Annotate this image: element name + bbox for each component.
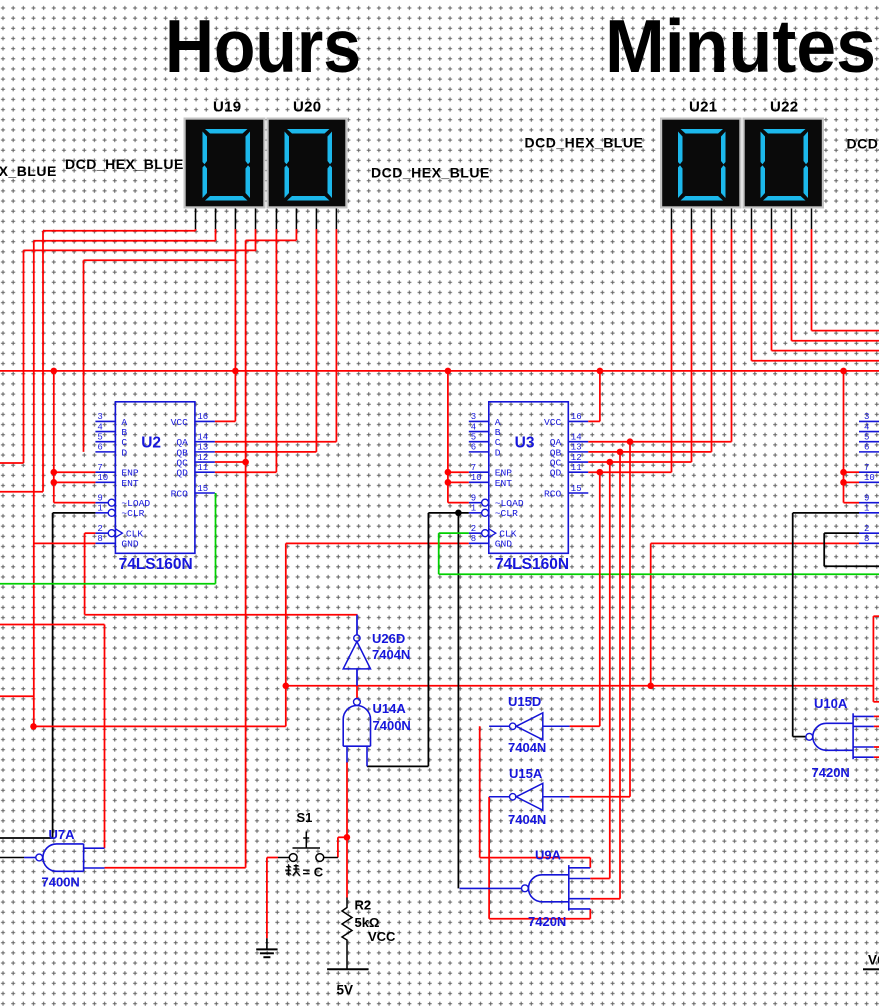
wire U2 VCC wire <box>215 420 236 422</box>
wire exit left (net C) <box>0 462 24 464</box>
wire U3 VCC wire <box>588 420 600 422</box>
junction U3 QD tap <box>597 469 604 476</box>
wire U3 GND return <box>34 725 286 727</box>
wire U26D output blue <box>356 615 358 635</box>
wire U10A in3 tip <box>874 746 879 748</box>
wire U22 pin2 exit right <box>772 350 879 352</box>
inverter U26D 7404N (pointing up) <box>343 635 370 669</box>
wire U22 pin1 drop <box>751 229 753 361</box>
wire U19 pin4 to left bus <box>24 249 257 251</box>
svg-text:GND: GND <box>495 539 513 550</box>
U2 CLK edge triangle <box>115 529 122 538</box>
svg-text:7420N: 7420N <box>528 914 566 929</box>
svg-text:U22: U22 <box>770 99 798 116</box>
wire U14A input A red <box>346 762 348 898</box>
wire U3 GND riser <box>285 543 287 726</box>
wire U3 QA wire <box>588 441 731 443</box>
wire U10A in4 tip <box>874 756 879 758</box>
display U20 (DCD_HEX_BLUE) <box>267 118 348 209</box>
svg-text:4: 4 <box>97 422 102 432</box>
wire U22 pin4 drop <box>811 229 813 331</box>
junction rail / U3 ENP-ENT branch <box>445 368 452 375</box>
wire rail to U2 ENP/ENT/~LOAD <box>53 371 55 503</box>
display U22 (DCD_HEX_BLUE) <box>743 118 825 209</box>
counter U2 74LS160N body <box>95 402 214 554</box>
junction U2 ENT junction <box>51 479 58 486</box>
nand gate U10A 7420N (4-input, pointing left) <box>806 713 874 759</box>
wire right edge exit <box>873 701 879 703</box>
svg-text:~CLR: ~CLR <box>495 508 518 519</box>
wire U26D input blue <box>356 669 358 686</box>
wire S1 right riser <box>337 837 339 857</box>
wire U19 pin1 drop <box>195 229 197 231</box>
wire U22 pin4 exit right <box>812 330 879 332</box>
display U20 pin stubs <box>276 209 336 230</box>
power source 5V bar <box>327 968 369 970</box>
inverter U15D 7404N (pointing left) <box>489 713 569 740</box>
junction rail / U4 ENP-ENT branch <box>840 368 847 375</box>
U4 pin numbers <box>864 412 875 544</box>
wire U3 QB wire <box>588 451 711 453</box>
svg-text:9: 9 <box>864 493 869 503</box>
junction U2 QC tap <box>242 459 249 466</box>
wire U22 pin1 exit right <box>752 360 879 362</box>
wire U21 pin1 to U3 QD <box>671 229 673 472</box>
wire U20 pin4 to U2 QA <box>335 229 337 442</box>
wire rail to U3 ENP/ENT/~LOAD <box>447 371 449 503</box>
wire U2 ENT wire <box>54 481 96 483</box>
svg-text:3: 3 <box>471 412 476 422</box>
svg-text:= C: = C <box>303 865 324 880</box>
svg-text:5V: 5V <box>337 983 354 998</box>
U3 right pin numbers <box>571 412 582 494</box>
svg-text:7404N: 7404N <box>508 740 546 755</box>
wire green rail to right edge <box>439 573 879 575</box>
svg-text:9: 9 <box>471 493 476 503</box>
display U22 pin stubs <box>752 209 812 230</box>
junction junction on x=33.8 bus <box>30 723 37 730</box>
wire exit left to U7A input A <box>0 624 105 626</box>
svg-text:CLK: CLK <box>126 529 144 540</box>
wire U2 ~LOAD wire <box>54 502 96 504</box>
inverter U15A 7404N (pointing left) <box>489 783 569 810</box>
resistor R2 5kOhm <box>342 898 352 970</box>
svg-text:5: 5 <box>471 433 476 443</box>
svg-text:12: 12 <box>571 453 582 463</box>
wire U10A output link <box>793 736 807 738</box>
wire U3 ~LOAD wire <box>448 502 469 504</box>
wire U9A output riser <box>457 513 459 889</box>
U2 right pin numbers <box>197 412 208 494</box>
junction U3 QA tap <box>627 438 634 445</box>
svg-text:3: 3 <box>864 412 869 422</box>
junction mid rail / U4 GND branch <box>647 683 654 690</box>
wire U15A input red <box>570 796 630 798</box>
svg-text:D: D <box>121 447 127 458</box>
wire U2 ~CLR drop <box>52 513 54 838</box>
wire U4 CLK wire <box>824 532 859 534</box>
junction U3 ENT junction <box>445 479 452 486</box>
wire U4 CLK drop <box>823 533 825 566</box>
U2 pin names <box>121 417 188 550</box>
U2 pin CLK bubble <box>108 530 115 537</box>
wire exit left stub <box>0 695 34 697</box>
svg-text:2: 2 <box>471 524 476 534</box>
wire U4 ENT wire <box>844 481 860 483</box>
svg-text:7: 7 <box>471 463 476 473</box>
svg-text:QD: QD <box>550 468 562 479</box>
wire U4 ~CLR wire <box>793 512 859 514</box>
wire left bus D to U2 D pin <box>83 260 85 452</box>
wire U21 pin4 to U3 QA <box>731 229 733 442</box>
junction S1 / R2 junction <box>344 834 351 841</box>
display U21 pin stubs <box>672 209 732 230</box>
display U19 pin stubs <box>196 209 256 230</box>
svg-text:U9A: U9A <box>535 848 562 863</box>
wire S1 to ground <box>266 858 268 939</box>
svg-text:13: 13 <box>571 443 582 453</box>
wire U9A in3 red <box>590 898 620 900</box>
wire U22 pin3 drop <box>791 229 793 341</box>
svg-text:4: 4 <box>471 422 476 432</box>
svg-text:Hours: Hours <box>165 4 361 88</box>
svg-text:R2: R2 <box>355 898 372 913</box>
power symbol VCC (clipped, bottom right) <box>863 968 879 970</box>
svg-text:DCD_HEX_BLUE: DCD_HEX_BLUE <box>525 135 644 151</box>
wire U2 QA wire <box>215 441 337 443</box>
svg-text:U7A: U7A <box>49 827 76 842</box>
svg-text:DCD_HEX_BLUE: DCD_HEX_BLUE <box>0 163 57 179</box>
svg-text:DCD_HEX_BLUE: DCD_HEX_BLUE <box>65 156 184 172</box>
svg-text:3: 3 <box>97 412 102 422</box>
wire U2 VCC riser / U19 pin3 <box>234 229 236 421</box>
U3 CLK edge triangle <box>489 529 496 538</box>
svg-text:DCD_HEX_BLUE: DCD_HEX_BLUE <box>371 165 490 181</box>
svg-text:7: 7 <box>97 463 102 473</box>
wire mid rail <box>286 685 874 687</box>
svg-text:5kΩ: 5kΩ <box>355 915 380 930</box>
wire U22 pin3 exit right <box>792 340 879 342</box>
wire U4 ENP wire <box>844 471 860 473</box>
wire U15A output drop <box>488 797 490 919</box>
svg-text:13: 13 <box>197 443 208 453</box>
svg-text:9: 9 <box>97 493 102 503</box>
svg-text:RCO: RCO <box>171 488 189 499</box>
wire U3 QA drop to U15A <box>629 442 631 797</box>
wire U2 GND wire <box>34 542 96 544</box>
svg-text:7400N: 7400N <box>373 718 411 733</box>
wire U9A in2 red <box>590 878 610 880</box>
svg-text:74LS160N: 74LS160N <box>495 556 569 573</box>
wire U3 VCC riser to rail <box>599 371 601 422</box>
U2 pin CLR bubble <box>108 509 115 516</box>
wire U10A in2 tip <box>874 725 879 727</box>
wire QC net riser/dropper <box>245 240 247 867</box>
wire U2 ENP wire <box>54 471 96 473</box>
wire U3 QC drop to U9A in2 <box>609 462 611 878</box>
U7A output wire black <box>0 857 24 859</box>
svg-text:14: 14 <box>197 433 208 443</box>
U2 left pin numbers <box>97 412 108 544</box>
wire U19 pin4 drop <box>255 229 257 250</box>
svg-text:1: 1 <box>471 504 476 514</box>
svg-text:~CLR: ~CLR <box>121 508 144 519</box>
svg-text:U15A: U15A <box>509 766 543 781</box>
wire U7A input A drop <box>104 625 106 849</box>
wire VCC rail <box>0 370 879 372</box>
U3 left pin numbers <box>471 412 482 544</box>
svg-text:GND: GND <box>121 539 139 550</box>
U3 pin LOAD bubble <box>482 499 489 506</box>
junction U3 QC tap <box>607 459 614 466</box>
svg-text:U20: U20 <box>293 99 321 116</box>
wire U2 RCO green exit left <box>0 583 216 585</box>
U2 pin LOAD bubble <box>108 499 115 506</box>
wire U20 pin1 to U2 QD <box>275 229 277 472</box>
wire U14A input B link <box>367 765 428 767</box>
svg-text:8: 8 <box>471 534 476 544</box>
svg-text:U19: U19 <box>213 99 241 116</box>
wire left bus B <box>33 241 35 727</box>
wire U15D output drop <box>479 726 481 857</box>
svg-text:7420N: 7420N <box>812 765 850 780</box>
U3 pin names <box>495 417 562 550</box>
svg-text:7404N: 7404N <box>508 812 546 827</box>
wire rail to U4 ENP/ENT/~LOAD <box>843 371 845 503</box>
svg-text:11: 11 <box>571 463 582 473</box>
wire U3 CLK green wire <box>439 532 469 534</box>
wire U4 GND riser <box>650 543 652 685</box>
svg-text:15: 15 <box>197 484 208 494</box>
wire U2 RCO green drop <box>215 493 217 584</box>
svg-text:74LS160N: 74LS160N <box>119 556 193 573</box>
wire U2 CLK drop <box>84 533 86 615</box>
wire U3 QD drop to U15D <box>599 472 601 726</box>
svg-text:QD: QD <box>176 468 188 479</box>
svg-text:U21: U21 <box>689 99 717 116</box>
svg-text:10: 10 <box>97 473 108 483</box>
ground symbol <box>256 938 277 957</box>
svg-text:D: D <box>495 447 501 458</box>
svg-text:RCO: RCO <box>544 488 562 499</box>
svg-text:7404N: 7404N <box>372 647 410 662</box>
wire U15A output link red <box>489 918 590 920</box>
junction rail / U2 VCC branch <box>232 368 239 375</box>
nand gate U9A 7420N (4-input, pointing left) <box>460 865 591 911</box>
svg-text:12: 12 <box>197 453 208 463</box>
svg-text:11: 11 <box>197 463 208 473</box>
display U21 (DCD_HEX_BLUE) <box>660 118 742 209</box>
counter U3 74LS160N body <box>469 402 589 554</box>
wire exit left (net A) <box>0 491 43 493</box>
wire U20 pin2 link <box>246 239 297 241</box>
svg-text:15: 15 <box>571 484 582 494</box>
wire U22 pin2 drop <box>771 229 773 351</box>
junction U4 ENT junction <box>840 479 847 486</box>
wire U20 pin3 to U2 QB <box>315 229 317 452</box>
wire S1 right link <box>338 836 347 838</box>
wire U4 ~LOAD wire <box>844 502 860 504</box>
svg-text:5: 5 <box>864 433 869 443</box>
wire left bus A <box>42 231 44 492</box>
svg-text:6: 6 <box>97 443 102 453</box>
svg-text:U15D: U15D <box>508 694 541 709</box>
svg-text:7: 7 <box>864 463 869 473</box>
svg-text:U3: U3 <box>515 435 535 452</box>
wire U19 pin2 to left bus <box>34 240 216 242</box>
svg-text:S1: S1 <box>297 810 313 825</box>
svg-text:16: 16 <box>571 412 582 422</box>
junction rail / U2 ENP-ENT branch <box>51 368 58 375</box>
svg-text:U2: U2 <box>141 435 161 452</box>
wire S1 left wire <box>267 857 278 859</box>
svg-text:Minutes: Minutes <box>605 4 876 88</box>
svg-text:U10A: U10A <box>814 696 848 711</box>
wire U4 ~CLR to U10A output <box>792 513 794 737</box>
wire U14A output red <box>356 686 358 699</box>
junction mid rail start <box>283 683 290 690</box>
nand gate U14A 7400N (pointing up) <box>343 699 370 767</box>
wire U4 CLK exit right <box>824 565 879 567</box>
wire U2 CLK to U26D output <box>85 614 358 616</box>
wire U3 ENT wire <box>448 481 469 483</box>
switch S1 (push button) <box>278 832 338 862</box>
junction U3 ENP junction <box>445 469 452 476</box>
wire left bus to U2 D <box>84 259 236 261</box>
wire U3 QD wire <box>588 471 671 473</box>
wire U15D output link red <box>480 857 591 859</box>
wire right edge entry <box>873 615 879 617</box>
svg-text:14: 14 <box>571 433 582 443</box>
wire U20 pin2 drop <box>295 229 297 240</box>
wire U2 CLK wire <box>85 532 96 534</box>
counter U4 74LS160N (clipped at right edge) pin stubs <box>859 421 879 543</box>
svg-text:6: 6 <box>471 443 476 453</box>
svg-text:VCC: VCC <box>868 953 879 968</box>
svg-text:6: 6 <box>864 443 869 453</box>
wire U3 ~CLR wire <box>428 512 468 514</box>
wire left bus C <box>23 250 25 463</box>
display U19 (DCD_HEX_BLUE) <box>184 118 266 209</box>
wire QC net to U7A input B <box>105 867 246 869</box>
svg-text:8: 8 <box>97 534 102 544</box>
svg-text:CLK: CLK <box>499 529 517 540</box>
wire U2 QC wire <box>215 461 246 463</box>
wire U15D input red <box>570 725 600 727</box>
wire U10A in1 tip <box>874 715 879 717</box>
svg-text:VCC: VCC <box>171 417 189 428</box>
wire U2 ~CLR wire <box>53 512 96 514</box>
svg-text:VCC: VCC <box>544 417 562 428</box>
junction rail / U3 VCC branch <box>597 368 604 375</box>
svg-text:7400N: 7400N <box>42 875 80 890</box>
wire U19 pin2 drop <box>215 229 217 241</box>
wire U3 GND wire <box>286 542 469 544</box>
junction U4 ENP junction <box>840 469 847 476</box>
wire U2 ~CLR exit left <box>0 837 53 839</box>
wire U2 QB wire <box>215 451 317 453</box>
wire U15A link to U9A in4 <box>589 909 591 919</box>
svg-text:DCD_HEX_BLUE: DCD_HEX_BLUE <box>847 136 879 152</box>
junction U3 ~CLR / U9A output junction <box>455 510 462 517</box>
wire U4 GND wire <box>651 542 859 544</box>
svg-text:1: 1 <box>864 504 869 514</box>
S1 key label (CJK glyph approximated) <box>286 865 301 877</box>
svg-text:U14A: U14A <box>373 701 407 716</box>
wire U21 pin2 to U3 QC <box>691 229 693 462</box>
svg-text:2: 2 <box>97 524 102 534</box>
wire right edge drop <box>872 616 874 702</box>
wire U3 ENP wire <box>448 471 469 473</box>
svg-text:1: 1 <box>97 504 102 514</box>
svg-text:2: 2 <box>864 524 869 534</box>
junction U3 QB tap <box>617 449 624 456</box>
wire U2 QD wire <box>215 471 277 473</box>
svg-text:8: 8 <box>864 534 869 544</box>
wire U3 CLK green drop <box>438 533 440 574</box>
svg-text:VCC: VCC <box>368 929 396 944</box>
wire U21 pin3 to U3 QB <box>711 229 713 452</box>
svg-text:ENT: ENT <box>121 478 139 489</box>
wire U19 pin1 to left bus <box>43 230 196 232</box>
wire U15D link to U9A in1 <box>589 858 591 868</box>
junction U2 ENP junction <box>51 469 58 476</box>
svg-text:10: 10 <box>864 473 875 483</box>
svg-text:10: 10 <box>471 473 482 483</box>
wire U3 QB drop to U9A in3 <box>619 452 621 899</box>
svg-text:16: 16 <box>197 412 208 422</box>
wire U3 QC wire <box>588 461 691 463</box>
U3 pin CLR bubble <box>482 509 489 516</box>
svg-text:5: 5 <box>97 433 102 443</box>
svg-text:4: 4 <box>864 422 869 432</box>
svg-text:U26D: U26D <box>372 631 405 646</box>
wire U3 ~CLR to U14A input <box>427 513 429 767</box>
U3 pin CLK bubble <box>482 530 489 537</box>
nand gate U7A 7400N (pointing left) <box>24 844 105 871</box>
svg-text:ENT: ENT <box>495 478 513 489</box>
